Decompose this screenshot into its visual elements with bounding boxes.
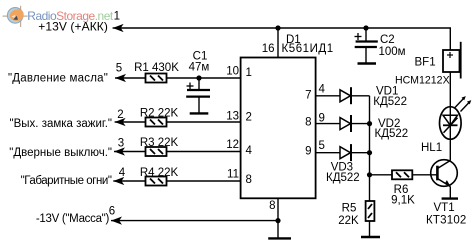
svg-text:100м: 100м bbox=[379, 46, 406, 58]
svg-text:+13V (+АКК): +13V (+АКК) bbox=[38, 19, 108, 33]
svg-text:4: 4 bbox=[246, 145, 253, 157]
svg-text:8: 8 bbox=[246, 174, 252, 186]
svg-text:10: 10 bbox=[226, 66, 239, 78]
svg-text:16: 16 bbox=[262, 43, 275, 55]
svg-text:5: 5 bbox=[116, 63, 122, 75]
svg-text:5: 5 bbox=[319, 140, 325, 152]
svg-text:К561ИД1: К561ИД1 bbox=[282, 43, 334, 55]
svg-text:4: 4 bbox=[119, 167, 126, 179]
svg-text:47м: 47м bbox=[189, 62, 210, 74]
svg-text:13: 13 bbox=[226, 111, 239, 123]
svg-text:КД522: КД522 bbox=[326, 172, 360, 184]
svg-text:11: 11 bbox=[227, 169, 239, 181]
svg-text:BF1: BF1 bbox=[415, 57, 436, 69]
svg-text:22K: 22K bbox=[338, 215, 359, 227]
svg-text:R3 22K: R3 22K bbox=[140, 137, 179, 149]
svg-text:2: 2 bbox=[246, 112, 252, 124]
svg-text:4: 4 bbox=[319, 84, 326, 96]
svg-text:"Вых. замка зажиг.": "Вых. замка зажиг." bbox=[10, 118, 112, 130]
svg-text:1: 1 bbox=[114, 11, 120, 23]
svg-text:9: 9 bbox=[305, 146, 311, 158]
svg-text:HL1: HL1 bbox=[421, 142, 442, 154]
svg-text:C2: C2 bbox=[380, 34, 395, 46]
svg-text:R2 22K: R2 22K bbox=[140, 108, 179, 120]
svg-text:R4 22K: R4 22K bbox=[140, 167, 179, 179]
svg-text:НСМ1212Х: НСМ1212Х bbox=[395, 75, 450, 87]
svg-text:1: 1 bbox=[246, 67, 252, 79]
svg-text:-13V ("Масса"): -13V ("Масса") bbox=[36, 213, 110, 225]
svg-text:КД522: КД522 bbox=[373, 96, 407, 108]
svg-text:8: 8 bbox=[305, 117, 311, 129]
svg-text:8: 8 bbox=[269, 200, 275, 212]
svg-text:R1 430K: R1 430K bbox=[134, 62, 179, 74]
svg-text:3: 3 bbox=[118, 138, 124, 150]
svg-text:VT1: VT1 bbox=[434, 202, 455, 214]
svg-text:9,1K: 9,1K bbox=[391, 195, 415, 207]
svg-text:7: 7 bbox=[305, 90, 311, 102]
svg-text:R5: R5 bbox=[342, 203, 357, 215]
svg-text:9: 9 bbox=[319, 113, 325, 125]
svg-text:6: 6 bbox=[109, 206, 115, 218]
svg-text:2: 2 bbox=[117, 109, 123, 121]
svg-text:12: 12 bbox=[226, 139, 239, 151]
svg-text:КТ3102: КТ3102 bbox=[426, 215, 467, 227]
svg-text:"Дверные выключ.": "Дверные выключ." bbox=[9, 147, 112, 159]
svg-text:"Давление масла": "Давление масла" bbox=[8, 73, 108, 85]
svg-text:КД522: КД522 bbox=[375, 128, 409, 140]
svg-text:"Габаритные огни": "Габаритные огни" bbox=[21, 175, 112, 187]
